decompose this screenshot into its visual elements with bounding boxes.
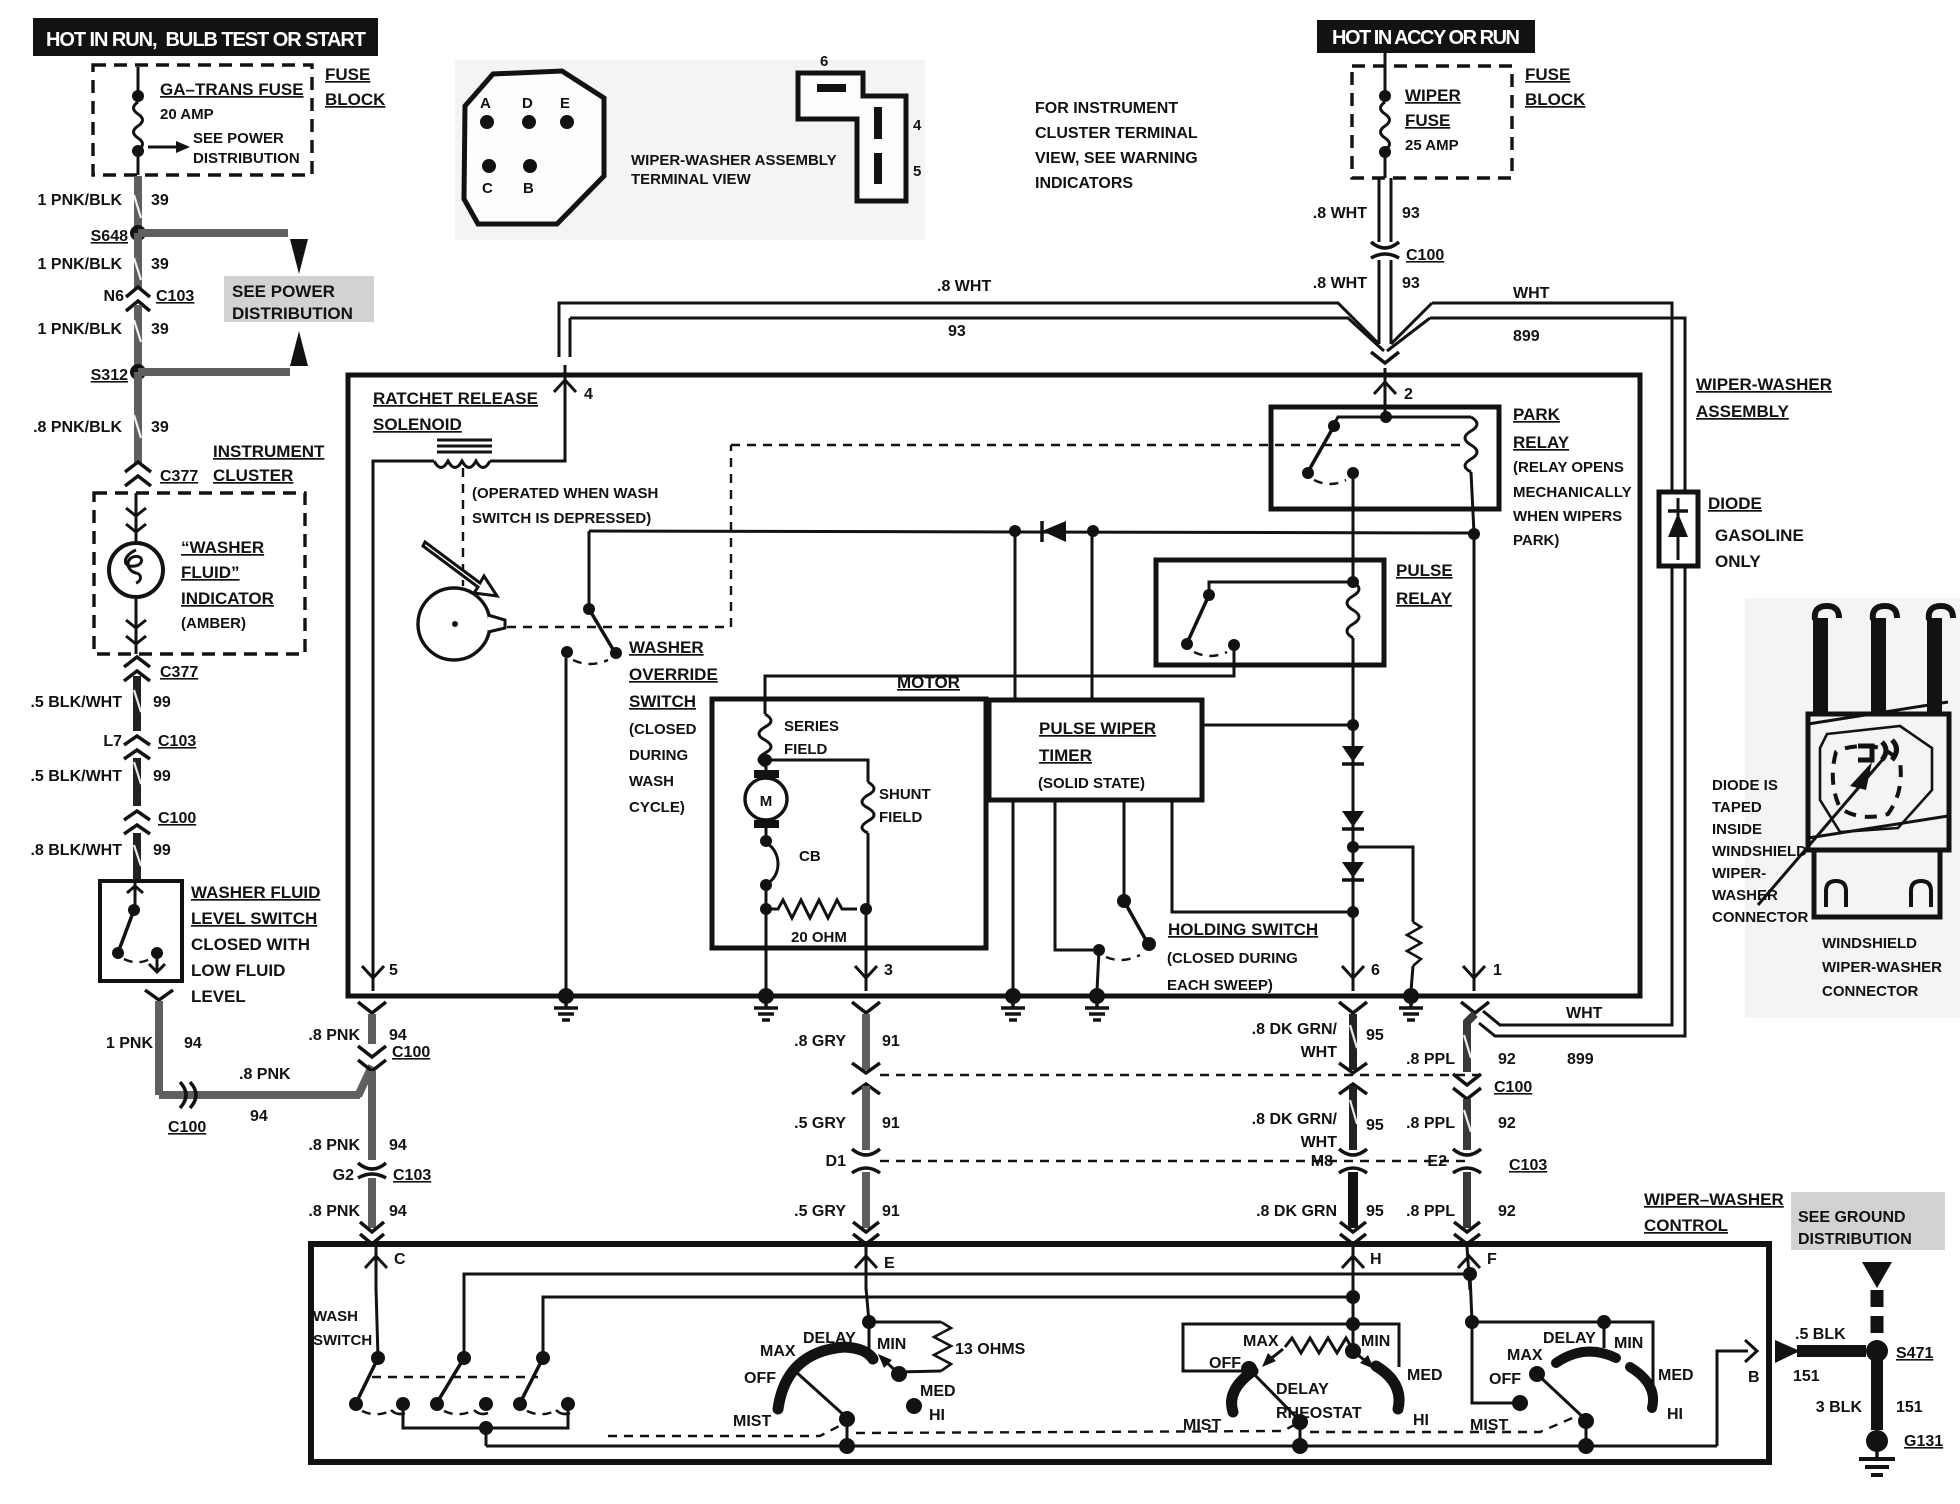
svg-text:4: 4 [584, 386, 593, 403]
svg-text:WIPER-WASHER: WIPER-WASHER [1822, 959, 1942, 976]
svg-text:C100: C100 [392, 1044, 430, 1061]
svg-text:899: 899 [1567, 1051, 1594, 1068]
dashed link (vertical to park relay line) [730, 445, 732, 627]
svg-text:94: 94 [250, 1108, 268, 1125]
svg-text:MIN: MIN [1361, 1333, 1390, 1350]
wire 899 WHT (top run right + down right side) [1387, 285, 1685, 1068]
label WASHER FLUID LEVEL SWITCH [191, 883, 320, 1006]
banner HOT IN RUN, BULB TEST OR START [33, 18, 378, 56]
wires from diode bus to pulse wiper timer [1014, 531, 1017, 700]
svg-text:GA–TRANS FUSE: GA–TRANS FUSE [160, 80, 304, 99]
label "WASHER FLUID" INDICATOR (AMBER) [181, 538, 274, 632]
svg-text:39: 39 [151, 192, 169, 209]
ground (motor) [754, 988, 778, 1020]
svg-text:DISTRIBUTION: DISTRIBUTION [232, 304, 353, 323]
label FUSE BLOCK (left) [325, 65, 386, 109]
instrument cluster dashed box [94, 493, 305, 654]
svg-text:M8: M8 [1311, 1153, 1333, 1170]
connector pair at C100 (GRY) [852, 1063, 880, 1094]
washer fluid level switch box [100, 881, 182, 981]
svg-text:SWITCH IS DEPRESSED): SWITCH IS DEPRESSED) [472, 510, 651, 527]
svg-text:CONNECTOR: CONNECTOR [1712, 909, 1809, 926]
wire 99 BLK/WHT (C377 to C103) [133, 676, 141, 731]
svg-text:“WASHER: “WASHER [181, 538, 264, 557]
connector C103 (G2) [333, 1163, 432, 1184]
series field [759, 714, 839, 766]
ground (override switch) [554, 988, 578, 1020]
svg-text:39: 39 [151, 256, 169, 273]
connector pair D1 (GRY) [826, 1149, 880, 1173]
svg-text:1: 1 [1493, 962, 1502, 979]
svg-text:25 AMP: 25 AMP [1405, 137, 1459, 154]
svg-text:OFF: OFF [1489, 1371, 1521, 1388]
svg-text:CLUSTER: CLUSTER [213, 466, 293, 485]
svg-text:MIN: MIN [877, 1336, 906, 1353]
windshield connector body [1758, 702, 1949, 905]
wire (override switch to park relay coil) with diode [589, 521, 1474, 542]
svg-text:.5 BLK: .5 BLK [1795, 1326, 1846, 1343]
svg-text:3 BLK: 3 BLK [1816, 1399, 1863, 1416]
terminal 2 [1374, 368, 1413, 416]
wire 93 WHT (C100 to splice) [1313, 260, 1420, 344]
rotary 1 delay arc [778, 1347, 873, 1409]
svg-text:MAX: MAX [1507, 1347, 1543, 1364]
wire solenoid to terminal 4 [490, 410, 565, 461]
svg-text:MAX: MAX [1243, 1333, 1279, 1350]
label PULSE RELAY [1396, 561, 1453, 608]
svg-text:.8 WHT: .8 WHT [937, 278, 991, 295]
dashed gang line (rotaries) [608, 1424, 843, 1436]
svg-text:WIPER-WASHER ASSEMBLY: WIPER-WASHER ASSEMBLY [631, 152, 837, 169]
svg-text:WASH: WASH [629, 773, 674, 790]
wiper-washer control box [311, 1244, 1769, 1462]
wire 92 PPL (terminal 1 down) [1467, 1014, 1475, 1072]
rotary 1 (delay wiper switch) wiring [862, 1288, 876, 1352]
svg-text:BLOCK: BLOCK [1525, 90, 1586, 109]
halftone SEE GROUND DISTRIBUTION [1791, 1192, 1945, 1250]
svg-text:WHEN WIPERS: WHEN WIPERS [1513, 508, 1622, 525]
svg-text:93: 93 [1402, 275, 1420, 292]
svg-text:.8 WHT: .8 WHT [1313, 275, 1367, 292]
park relay contacts and coil [1302, 411, 1477, 533]
label HOLDING SWITCH [1167, 920, 1318, 994]
wire pulse relay coil down to diodes [1352, 638, 1355, 747]
rotary 3 wiring [1463, 1267, 1653, 1411]
svg-text:HI: HI [929, 1407, 945, 1424]
svg-text:FUSE: FUSE [1405, 111, 1450, 130]
holding switch [1055, 800, 1347, 991]
note FOR INSTRUMENT CLUSTER TERMINAL VIEW [1035, 100, 1198, 192]
svg-text:B: B [523, 180, 534, 197]
svg-text:SEE GROUND: SEE GROUND [1798, 1209, 1906, 1226]
svg-text:151: 151 [1793, 1368, 1820, 1385]
wire pulse relay contact to motor series field [765, 645, 1234, 714]
wire solenoid to terminal 5 [373, 461, 434, 983]
svg-text:MAX: MAX [760, 1343, 796, 1360]
svg-text:HOT IN ACCY OR RUN: HOT IN ACCY OR RUN [1332, 27, 1520, 49]
svg-text:MIST: MIST [733, 1413, 771, 1430]
rotary 2 (delay rheostat) wiring [1183, 1290, 1399, 1371]
ground (timer left) [1001, 988, 1025, 1020]
terminal E [855, 1247, 895, 1290]
svg-text:L7: L7 [103, 733, 122, 750]
splice S471 [1866, 1340, 1933, 1362]
wire 94 PNK (C103 to control box) [368, 1178, 376, 1228]
wire 99 BLK/WHT (C100 to level switch) [133, 833, 141, 881]
svg-text:.5 BLK/WHT: .5 BLK/WHT [30, 694, 122, 711]
svg-text:94: 94 [184, 1035, 202, 1052]
wire 93 WHT (top run to terminal 4) [559, 278, 1384, 357]
svg-text:C377: C377 [160, 468, 198, 485]
svg-text:C100: C100 [168, 1119, 206, 1136]
svg-text:MIN: MIN [1614, 1335, 1643, 1352]
svg-text:MED: MED [1407, 1367, 1443, 1384]
halftone area terminal view [455, 60, 925, 240]
pulse relay box [1156, 560, 1384, 665]
wire 92 PPL (to terminal F) [1463, 1172, 1471, 1228]
svg-text:(SOLID STATE): (SOLID STATE) [1038, 775, 1145, 792]
rotary 3 lever [1529, 1366, 1594, 1454]
ground (resistor) [1399, 988, 1423, 1020]
connector C100 (left column) [124, 810, 196, 834]
wash switch contact wiring [403, 1404, 568, 1446]
svg-text:5: 5 [389, 962, 398, 979]
connector C100 (PPL) [1453, 1074, 1532, 1099]
svg-text:WINDSHIELD: WINDSHIELD [1822, 935, 1917, 952]
svg-text:INDICATORS: INDICATORS [1035, 175, 1133, 192]
wire shunt to terminal 3 [865, 909, 868, 991]
terminal 4 [554, 365, 593, 412]
svg-text:1 PNK/BLK: 1 PNK/BLK [38, 256, 123, 273]
label FUSE BLOCK (right) [1525, 65, 1586, 109]
svg-text:RELAY: RELAY [1513, 433, 1570, 452]
svg-text:ONLY: ONLY [1715, 552, 1761, 571]
pulse relay contacts and coil [1181, 576, 1359, 656]
svg-text:.8 PNK/BLK: .8 PNK/BLK [33, 419, 122, 436]
fuse block box (dashed) [93, 65, 312, 175]
svg-text:MED: MED [920, 1383, 956, 1400]
wire 95 DK GRN (to terminal H) [1348, 1172, 1358, 1228]
svg-text:.8 DK GRN/: .8 DK GRN/ [1252, 1021, 1338, 1038]
wire 94 PNK (level switch down) [155, 1001, 163, 1095]
svg-text:PULSE: PULSE [1396, 561, 1453, 580]
terminal H [1342, 1247, 1382, 1290]
label INSTRUMENT CLUSTER [213, 442, 325, 485]
svg-text:LOW FLUID: LOW FLUID [191, 961, 285, 980]
svg-text:SOLENOID: SOLENOID [373, 415, 462, 434]
svg-text:MECHANICALLY: MECHANICALLY [1513, 484, 1632, 501]
terminal F [1458, 1247, 1497, 1290]
svg-text:C100: C100 [1494, 1079, 1532, 1096]
label WASH SWITCH [313, 1308, 372, 1349]
svg-text:93: 93 [948, 323, 966, 340]
svg-text:D1: D1 [826, 1153, 847, 1170]
label WINDSHIELD WIPER-WASHER CONNECTOR [1822, 935, 1942, 1000]
svg-text:91: 91 [882, 1033, 900, 1050]
svg-text:MED: MED [1658, 1367, 1694, 1384]
svg-text:.8 PPL: .8 PPL [1406, 1203, 1455, 1220]
svg-text:M: M [760, 793, 773, 810]
svg-text:C: C [482, 180, 493, 197]
wire to terminal B [1717, 1351, 1748, 1446]
svg-text:WHT: WHT [1301, 1134, 1338, 1151]
label PULSE WIPER TIMER [1038, 719, 1156, 792]
washer fluid indicator lamp [109, 493, 163, 654]
svg-text:WIPER-WASHER: WIPER-WASHER [1696, 375, 1832, 394]
svg-text:RATCHET RELEASE: RATCHET RELEASE [373, 389, 538, 408]
wire hatch streaks [134, 195, 1471, 1132]
rotary 1 labels [733, 1330, 906, 1430]
svg-text:OFF: OFF [744, 1370, 776, 1387]
svg-text:(CLOSED DURING: (CLOSED DURING [1167, 950, 1298, 967]
svg-text:(RELAY OPENS: (RELAY OPENS [1513, 459, 1624, 476]
wire 94 PNK (horizontal run to C100) [159, 1066, 372, 1136]
svg-text:.8 PNK: .8 PNK [308, 1027, 360, 1044]
dashed link solenoid to cam [462, 468, 464, 586]
wire 39 PNK/BLK (fuse to S648) [134, 176, 142, 233]
terminal 5 [358, 955, 398, 1013]
svg-text:WIPER–WASHER: WIPER–WASHER [1644, 1190, 1784, 1209]
svg-text:94: 94 [389, 1203, 407, 1220]
svg-text:HOT IN RUN, BULB TEST OR STAR: HOT IN RUN, BULB TEST OR START [46, 29, 366, 51]
wire 94 PNK (terminal 5 to C100) [368, 1014, 376, 1044]
wire motor to ground [765, 909, 768, 991]
svg-text:1 PNK/BLK: 1 PNK/BLK [38, 192, 123, 209]
svg-text:SEE POWER: SEE POWER [232, 282, 335, 301]
svg-text:CLUSTER TERMINAL: CLUSTER TERMINAL [1035, 125, 1198, 142]
wire 151 .5 BLK to S471 [1775, 1326, 1866, 1385]
wire timer to diode chain [1202, 719, 1359, 731]
wire 93 WHT (fuse down) [1313, 178, 1420, 242]
svg-text:(OPERATED WHEN WASH: (OPERATED WHEN WASH [472, 485, 658, 502]
resistor 20 OHM [760, 885, 872, 946]
svg-text:DELAY: DELAY [1276, 1381, 1329, 1398]
svg-text:DIODE: DIODE [1708, 494, 1762, 513]
rotary 3 delay arc [1556, 1352, 1616, 1363]
pulse wiper timer box [989, 700, 1202, 800]
svg-text:HI: HI [1413, 1412, 1429, 1429]
svg-text:91: 91 [882, 1115, 900, 1132]
fuse WIPER 25A [1379, 53, 1461, 178]
svg-text:CYCLE): CYCLE) [629, 799, 685, 816]
terminal 3 [852, 962, 893, 1013]
svg-text:WINDSHIELD: WINDSHIELD [1712, 843, 1807, 860]
svg-text:13 OHMS: 13 OHMS [955, 1341, 1026, 1358]
wiper-washer assembly box (main) [348, 375, 1640, 996]
svg-text:RELAY: RELAY [1396, 589, 1453, 608]
svg-text:95: 95 [1366, 1117, 1384, 1134]
svg-text:C100: C100 [1406, 247, 1444, 264]
connector E2/C103 (PPL) [1427, 1149, 1547, 1174]
svg-text:.8 PNK: .8 PNK [239, 1066, 291, 1083]
ground G131 [1859, 1430, 1943, 1475]
svg-text:99: 99 [153, 842, 171, 859]
svg-text:.8 WHT: .8 WHT [1313, 205, 1367, 222]
svg-text:GASOLINE: GASOLINE [1715, 526, 1804, 545]
svg-text:D: D [522, 95, 533, 112]
wire 91 GRY (terminal 3 down) [862, 1014, 870, 1070]
park relay box [1271, 407, 1499, 509]
svg-text:(CLOSED: (CLOSED [629, 721, 697, 738]
rotary 1 MED/HI contacts [878, 1354, 956, 1424]
svg-text:WIPER-: WIPER- [1712, 865, 1766, 882]
svg-text:94: 94 [389, 1137, 407, 1154]
svg-text:.5 BLK/WHT: .5 BLK/WHT [30, 768, 122, 785]
svg-text:5: 5 [913, 163, 921, 180]
resistor 13 OHMS [869, 1322, 1026, 1372]
label WASHER OVERRIDE SWITCH [629, 638, 718, 816]
svg-text:BLOCK: BLOCK [325, 90, 386, 109]
svg-text:FUSE: FUSE [325, 65, 370, 84]
svg-text:.5 GRY: .5 GRY [794, 1203, 846, 1220]
timer wire to ground (left pin) [1012, 800, 1015, 991]
svg-text:EACH SWEEP): EACH SWEEP) [1167, 977, 1273, 994]
svg-text:PARK): PARK) [1513, 532, 1559, 549]
svg-text:2: 2 [1404, 386, 1413, 403]
svg-text:TAPED: TAPED [1712, 799, 1762, 816]
label WIPER-WASHER ASSEMBLY [1696, 375, 1832, 421]
wiper-washer assembly connector (terminal view, octagon) [464, 71, 604, 224]
wire (inner top run 1) to pole 2 [464, 1274, 1469, 1358]
shunt field [760, 754, 931, 909]
wire 151 3 BLK to G131 [1816, 1351, 1923, 1430]
wire park relay coil to terminal 1 [1473, 533, 1476, 991]
svg-text:FIELD: FIELD [879, 809, 922, 826]
svg-text:ASSEMBLY: ASSEMBLY [1696, 402, 1790, 421]
svg-text:MIST: MIST [1183, 1417, 1221, 1434]
diode (gasoline only) [1659, 492, 1804, 571]
svg-text:SEE POWER: SEE POWER [193, 130, 284, 147]
svg-text:F: F [1487, 1251, 1497, 1268]
svg-text:PARK: PARK [1513, 405, 1561, 424]
ground (holding switch) [1085, 988, 1109, 1020]
svg-text:TIMER: TIMER [1039, 746, 1092, 765]
svg-text:.5 GRY: .5 GRY [794, 1115, 846, 1132]
svg-text:WIPER: WIPER [1405, 86, 1461, 105]
label WIPER-WASHER CONTROL [1644, 1190, 1784, 1235]
ratchet release solenoid label [373, 389, 538, 434]
svg-text:E: E [560, 95, 570, 112]
wire 39 PNK/BLK (C103 to S312) [134, 305, 142, 372]
svg-text:.8 PPL: .8 PPL [1406, 1115, 1455, 1132]
wash switch pole 3 [513, 1351, 575, 1414]
svg-text:VIEW, SEE WARNING: VIEW, SEE WARNING [1035, 150, 1198, 167]
svg-text:HI: HI [1667, 1406, 1683, 1423]
svg-text:WASHER: WASHER [1712, 887, 1778, 904]
wire park relay contact to pulse relay [1352, 473, 1355, 582]
svg-text:6: 6 [820, 53, 828, 70]
wire 91 GRY (to D1) [862, 1086, 870, 1150]
svg-text:4: 4 [913, 117, 922, 134]
svg-text:.8 PNK: .8 PNK [308, 1203, 360, 1220]
svg-text:95: 95 [1366, 1203, 1384, 1220]
svg-text:.8 DK GRN: .8 DK GRN [1256, 1203, 1337, 1220]
windshield connector lower body [1814, 850, 1940, 917]
svg-text:E: E [884, 1255, 895, 1272]
svg-text:.8 BLK/WHT: .8 BLK/WHT [30, 842, 122, 859]
halftone area windshield connector [1745, 598, 1960, 1018]
washer override switch [561, 531, 622, 991]
svg-text:3: 3 [884, 962, 893, 979]
svg-text:.8 GRY: .8 GRY [794, 1033, 846, 1050]
connector C100 line (dashed) [880, 1074, 1480, 1076]
svg-text:G131: G131 [1904, 1433, 1943, 1450]
svg-text:WHT: WHT [1513, 285, 1550, 302]
svg-text:C377: C377 [160, 664, 198, 681]
svg-text:95: 95 [1366, 1027, 1384, 1044]
ground distribution arrow + wire [1862, 1262, 1892, 1340]
svg-text:(AMBER): (AMBER) [181, 615, 246, 632]
svg-text:S648: S648 [91, 228, 128, 245]
svg-text:C103: C103 [1509, 1157, 1547, 1174]
svg-text:FLUID”: FLUID” [181, 563, 240, 582]
svg-text:39: 39 [151, 419, 169, 436]
svg-text:INSTRUMENT: INSTRUMENT [213, 442, 325, 461]
svg-text:CB: CB [799, 848, 821, 865]
circuit breaker CB [760, 835, 821, 891]
dashed gang line (wash switch) [372, 1376, 538, 1378]
svg-text:WASHER: WASHER [629, 638, 704, 657]
svg-text:DISTRIBUTION: DISTRIBUTION [1798, 1231, 1912, 1248]
washer fluid level switch contacts [112, 881, 165, 972]
svg-text:S312: S312 [91, 367, 128, 384]
svg-text:92: 92 [1498, 1115, 1516, 1132]
wash switch pole 1 [349, 1288, 410, 1414]
svg-text:INDICATOR: INDICATOR [181, 589, 274, 608]
svg-text:.8 DK GRN/: .8 DK GRN/ [1252, 1111, 1338, 1128]
svg-text:151: 151 [1896, 1399, 1923, 1416]
ratchet release solenoid coil [434, 440, 492, 468]
note operated when wash switch [472, 485, 658, 527]
wire 99 BLK/WHT (C103 to C100) [133, 758, 141, 806]
wire 39 PNK/BLK (S648 to C103) [134, 233, 142, 288]
svg-text:H: H [1370, 1251, 1382, 1268]
wash cam [418, 542, 505, 660]
svg-text:E2: E2 [1427, 1153, 1447, 1170]
connector C377 (bottom) [124, 657, 198, 681]
svg-text:INSIDE: INSIDE [1712, 821, 1762, 838]
wire (inner bottom run) [486, 1445, 1717, 1448]
svg-text:.8 PNK: .8 PNK [308, 1137, 360, 1154]
splice S648 [91, 225, 308, 274]
svg-text:92: 92 [1498, 1203, 1516, 1220]
svg-text:WASHER FLUID: WASHER FLUID [191, 883, 320, 902]
svg-text:FOR INSTRUMENT: FOR INSTRUMENT [1035, 100, 1178, 117]
svg-text:MOTOR: MOTOR [897, 673, 960, 692]
wire 92 PPL (to E2) [1463, 1099, 1471, 1150]
wire 91 GRY (to terminal E) [862, 1172, 870, 1228]
svg-text:PULSE WIPER: PULSE WIPER [1039, 719, 1156, 738]
banner HOT IN ACCY OR RUN [1317, 20, 1535, 53]
wiper fuse block box (dashed) [1352, 66, 1512, 178]
rheostat zigzag [1262, 1338, 1374, 1369]
rotary 2 lever [1241, 1361, 1308, 1454]
svg-text:39: 39 [151, 321, 169, 338]
svg-text:C103: C103 [393, 1167, 431, 1184]
note DIODE IS TAPED INSIDE [1712, 777, 1809, 926]
rotary 2 thick arcs [1232, 1371, 1253, 1412]
wire 39 PNK/BLK (S312 to C377) [134, 372, 142, 463]
svg-text:1 PNK: 1 PNK [106, 1035, 154, 1052]
svg-text:OFF: OFF [1209, 1355, 1241, 1372]
svg-text:899: 899 [1513, 328, 1540, 345]
svg-text:SWITCH: SWITCH [629, 692, 696, 711]
connector C103 line (dashed) [880, 1160, 1472, 1162]
svg-text:20 AMP: 20 AMP [160, 106, 214, 123]
instrument cluster connector (L-shape) [798, 53, 922, 201]
fuse GA-TRANS 20A [132, 67, 304, 175]
wire (inner top run 2) to pole 3 [543, 1297, 1353, 1358]
